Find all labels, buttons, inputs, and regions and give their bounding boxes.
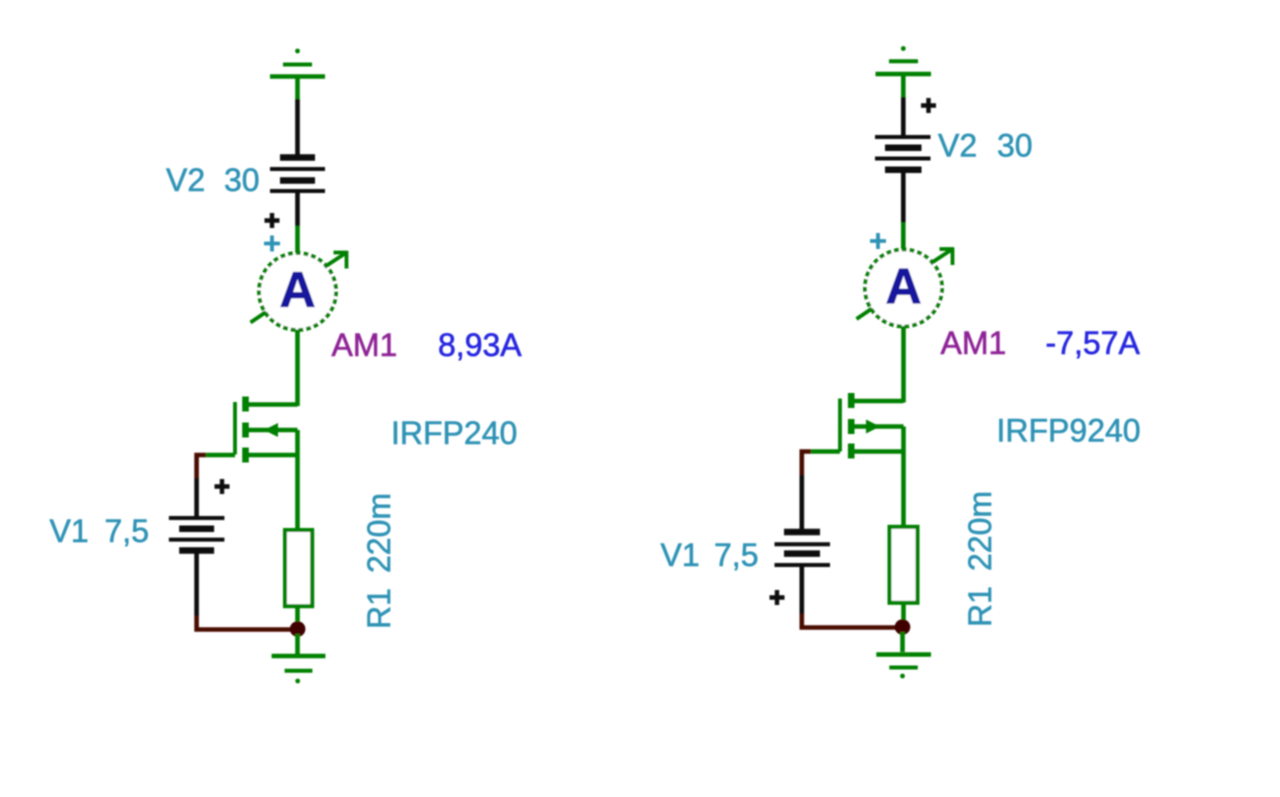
polarity + of ammeter AM1 (right) (870, 233, 886, 249)
wire resistor to junction (left) (295, 606, 300, 626)
ammeter tail (right) (857, 309, 873, 320)
svg-text:7,5: 7,5 (105, 513, 149, 549)
polarity + of battery V2 (left) (265, 213, 280, 228)
battery V1 7,5 (left) (169, 518, 225, 551)
wire ammeter to MOSFET drain (right) (901, 326, 906, 403)
wire battery V2 to ammeter (left) (295, 193, 300, 226)
MOSFET T2 IRFP9240 (right) (840, 393, 904, 527)
resistor R1 (left) (285, 530, 312, 606)
MOSFET T1 IRFP240 (left) (235, 397, 298, 531)
resistor R1 (right) (890, 527, 918, 603)
ground symbol (left) (272, 634, 326, 683)
wire gate to battery V1 plus (left) (206, 453, 235, 458)
svg-text:A: A (279, 262, 315, 318)
ammeter tail (left) (251, 312, 267, 323)
junction node (left) (290, 621, 306, 637)
svg-text:AM1: AM1 (941, 325, 1007, 361)
svg-text:IRFP9240: IRFP9240 (997, 413, 1141, 449)
wire battery V1 to junction (right) (799, 567, 804, 614)
power supply bar symbol (left, net V2+) (270, 49, 325, 77)
polarity + of battery V1 (left) (215, 479, 230, 494)
svg-text:220m: 220m (962, 491, 998, 571)
svg-text:7,5: 7,5 (714, 537, 758, 573)
battery V2 (right, flipped) (875, 137, 931, 170)
ammeter AM1 circle (right) (865, 250, 942, 327)
wire gate to battery V1 (right) (811, 449, 840, 454)
svg-text:V2: V2 (166, 162, 205, 198)
svg-text:AM1: AM1 (332, 327, 398, 363)
wire ammeter to MOSFET drain (left) (295, 330, 300, 407)
svg-text:8,93A: 8,93A (438, 327, 522, 363)
svg-text:V1: V1 (661, 537, 700, 573)
power supply bar symbol (right, net V2-) (876, 46, 932, 74)
svg-text:30: 30 (224, 162, 260, 198)
svg-text:A: A (885, 259, 921, 315)
ground symbol (right) (876, 632, 931, 678)
svg-text:R1: R1 (962, 586, 998, 627)
ammeter AM1 circle (left) (259, 253, 336, 330)
svg-text:30: 30 (997, 128, 1033, 164)
svg-text:IRFP240: IRFP240 (391, 415, 517, 451)
ammeter arrow (right) (931, 248, 955, 266)
wire battery V1 minus to junction (left) (194, 553, 199, 616)
MOSFET body arrow (left, points left) (264, 423, 278, 437)
polarity + of battery V2 (right) (921, 98, 936, 113)
svg-text:R1: R1 (361, 588, 397, 629)
MOSFET body arrow (right, points right) (866, 420, 880, 434)
polarity + of battery V1 (right) (770, 590, 785, 605)
wire power to battery V2 (right) (901, 76, 906, 98)
svg-text:-7,57A: -7,57A (1046, 325, 1141, 361)
svg-text:V1: V1 (50, 513, 89, 549)
polarity + of ammeter AM1 (left) (264, 236, 280, 252)
svg-text:V2: V2 (938, 128, 977, 164)
wire power to battery V2 (left) (295, 78, 300, 99)
battery V1 7,5 (right, flipped) (775, 532, 831, 565)
wire resistor to junction (right) (901, 603, 906, 624)
wire battery V2 to ammeter (right) (901, 172, 906, 223)
svg-text:220m: 220m (361, 493, 397, 573)
ammeter arrow (left) (325, 251, 349, 269)
junction node (right) (895, 619, 911, 635)
battery V2 (left) (270, 158, 325, 192)
